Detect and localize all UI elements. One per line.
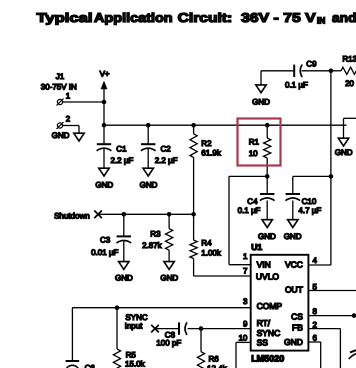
svg-text:GND: GND <box>115 274 133 283</box>
svg-text:2.2 µF: 2.2 µF <box>111 156 134 165</box>
svg-text:15.0k: 15.0k <box>125 359 146 368</box>
svg-text:GND: GND <box>335 148 353 157</box>
svg-text:0.1 µF: 0.1 µF <box>285 80 308 89</box>
svg-text:Application: Application <box>94 10 173 25</box>
svg-text:R4: R4 <box>201 239 212 248</box>
svg-text:5: 5 <box>313 283 318 292</box>
svg-text:UVLO: UVLO <box>256 272 280 282</box>
svg-text:C3: C3 <box>100 235 111 244</box>
svg-text:R6: R6 <box>209 354 220 363</box>
svg-text:COMP: COMP <box>257 301 283 311</box>
svg-text:9: 9 <box>243 320 248 329</box>
svg-text:FB: FB <box>292 322 303 332</box>
svg-text:IN: IN <box>317 16 325 26</box>
svg-text:C1: C1 <box>116 145 127 154</box>
svg-text:V+: V+ <box>100 70 110 79</box>
svg-text:SS: SS <box>257 337 269 347</box>
svg-text:2: 2 <box>66 115 71 124</box>
svg-text:1.00k: 1.00k <box>201 249 222 258</box>
svg-text:J1: J1 <box>56 72 65 81</box>
svg-text:CS: CS <box>291 312 303 322</box>
svg-text:C10: C10 <box>302 197 317 206</box>
svg-text:GND: GND <box>258 232 276 241</box>
svg-text:20: 20 <box>345 79 354 88</box>
svg-text:RT/: RT/ <box>257 318 271 328</box>
svg-text:GND: GND <box>52 131 70 140</box>
svg-text:GND: GND <box>284 337 303 347</box>
svg-text:Shutdown: Shutdown <box>54 212 90 221</box>
svg-text:GND: GND <box>95 181 113 190</box>
svg-text:C9: C9 <box>306 60 317 69</box>
svg-text:U1: U1 <box>251 242 262 252</box>
svg-text:VIN: VIN <box>257 260 271 270</box>
svg-text:12.4k: 12.4k <box>207 364 228 368</box>
svg-text:1: 1 <box>243 252 248 261</box>
svg-text:GND: GND <box>284 232 302 241</box>
svg-text:Typical: Typical <box>37 10 93 25</box>
svg-text:R13: R13 <box>342 54 356 63</box>
svg-text:4.7 µF: 4.7 µF <box>298 206 321 215</box>
svg-text:100 pF: 100 pF <box>156 339 181 348</box>
svg-text:R3: R3 <box>150 230 161 239</box>
svg-text:Input: Input <box>125 321 144 330</box>
svg-text:and: and <box>332 10 356 25</box>
svg-text:8: 8 <box>313 307 318 316</box>
svg-text:10: 10 <box>249 149 258 158</box>
svg-text:C2: C2 <box>161 145 172 154</box>
svg-text:61.9k: 61.9k <box>201 149 222 158</box>
svg-text:6: 6 <box>313 334 318 343</box>
svg-text:R2: R2 <box>201 139 212 148</box>
svg-text:1: 1 <box>66 92 71 101</box>
svg-text:2.87k: 2.87k <box>142 241 163 250</box>
svg-text:0.1 µF: 0.1 µF <box>238 206 261 215</box>
svg-text:R5: R5 <box>126 350 137 359</box>
svg-text:10: 10 <box>238 333 247 342</box>
svg-text:30-75V IN: 30-75V IN <box>41 82 77 91</box>
svg-text:C6: C6 <box>85 364 96 368</box>
svg-text:2: 2 <box>313 320 318 329</box>
svg-text:C4: C4 <box>247 197 258 206</box>
svg-text:Circuit:: Circuit: <box>178 10 233 25</box>
svg-text:OUT: OUT <box>285 285 303 295</box>
svg-text:GND: GND <box>160 274 178 283</box>
svg-text:LM5020: LM5020 <box>251 354 284 364</box>
svg-text:VCC: VCC <box>285 260 303 270</box>
svg-text:4: 4 <box>313 256 318 265</box>
svg-text:0.01 µF: 0.01 µF <box>91 248 118 257</box>
svg-text:GND: GND <box>252 98 270 107</box>
svg-text:3: 3 <box>243 297 248 306</box>
svg-text:R1: R1 <box>249 138 260 147</box>
svg-text:36V - 75 V: 36V - 75 V <box>241 10 316 25</box>
svg-text:GND: GND <box>140 181 158 190</box>
svg-text:7: 7 <box>243 267 248 276</box>
svg-text:2.2 µF: 2.2 µF <box>155 156 178 165</box>
